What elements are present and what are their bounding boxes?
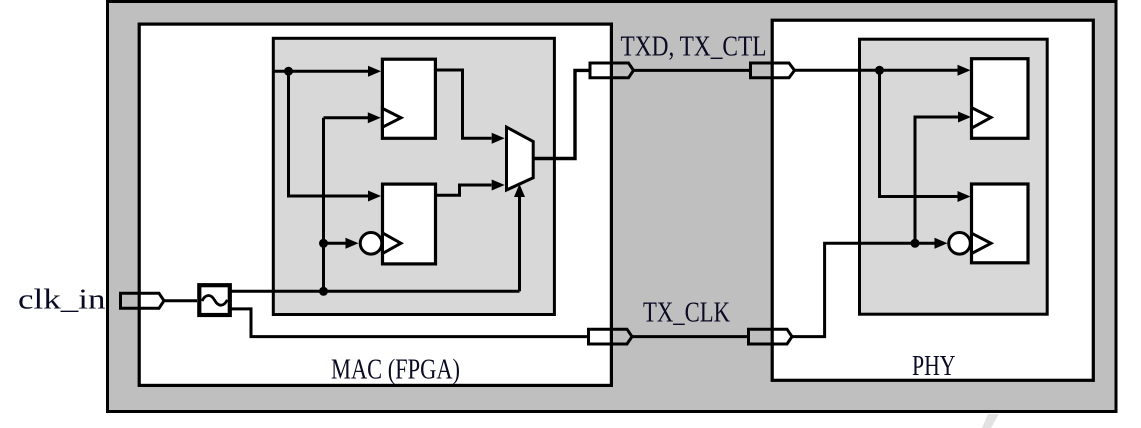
register U4 (PHY falling-edge flip-flop) (972, 184, 1029, 263)
clock input triangle U4 (972, 233, 992, 253)
clock input triangle U2 (383, 233, 401, 254)
svg-text:TX_CLK: TX_CLK (643, 298, 730, 329)
PHY inner register region box (860, 39, 1048, 314)
wire: PHY clock branch up to U3 clock (915, 112, 971, 244)
wire: register U2 Q to mux input 1 (436, 180, 505, 196)
wire: TXD net between MAC and PHY ports (634, 69, 751, 72)
port: TX_CLK output at MAC boundary (589, 329, 633, 344)
clock input triangle U3 (972, 108, 992, 129)
MAC (FPGA) block box (139, 24, 611, 385)
wire: clock vertical to U1 clock (324, 112, 381, 291)
svg-text:clk_in: clk_in (18, 285, 106, 316)
port: TXD output at MAC boundary (590, 63, 634, 78)
port: clk_in input (121, 293, 165, 308)
node: PHY data branch junction (875, 66, 884, 75)
wire: inverted clock branch to U2 bubble (324, 238, 359, 249)
svg-text:TXD, TX_CTL: TXD, TX_CTL (621, 31, 767, 63)
wire: mux output to TXD port (533, 70, 590, 158)
svg-text:PHY: PHY (912, 350, 956, 382)
oscillator / clock source box (199, 285, 230, 315)
inverting bubble on U4 clock (949, 233, 971, 255)
node: clock junction at bottom clock rail (319, 287, 328, 296)
sine symbol inside oscillator (202, 296, 227, 306)
clock input triangle U1 (382, 108, 401, 127)
register U2 (MAC falling-edge flip-flop) (383, 184, 436, 264)
wire: TXD into PHY register U3 D (795, 65, 971, 76)
register U3 (PHY rising-edge flip-flop) (972, 59, 1029, 139)
wire: TX_CLK up into PHY to U4 inverted clock (792, 238, 948, 337)
wire: data branch down to register U2 D (289, 71, 382, 201)
port: TXD input at PHY boundary (751, 63, 795, 78)
wire: oscillator to TX_CLK port (229, 309, 589, 337)
wire: TX_CLK net between MAC and PHY ports (632, 335, 749, 338)
wire: clk_in port to oscillator (164, 299, 197, 302)
watermark diagonal stroke bottom right (982, 414, 999, 428)
port: TX_CLK input at PHY boundary (749, 329, 793, 344)
node: clock junction at inverted-clock branch (319, 239, 328, 248)
node: MAC data branch junction (284, 67, 293, 76)
node: PHY clock junction (911, 239, 920, 248)
svg-text:MAC (FPGA): MAC (FPGA) (331, 354, 460, 385)
MAC inner register region box (273, 38, 554, 314)
wire: PHY data branch down to register U4 D (880, 70, 971, 202)
wire: bottom clock rail from oscillator to mux select (229, 184, 525, 291)
PHY block box (772, 20, 1093, 380)
register U1 (MAC rising-edge flip-flop) (382, 59, 435, 138)
wire: register U1 Q to mux input 0 (436, 70, 505, 144)
mux U5 (2:1 DDR output mux) (507, 127, 534, 190)
wire: MAC data input to register U1 D (272, 66, 381, 77)
inverting bubble on U2 clock (360, 233, 382, 255)
